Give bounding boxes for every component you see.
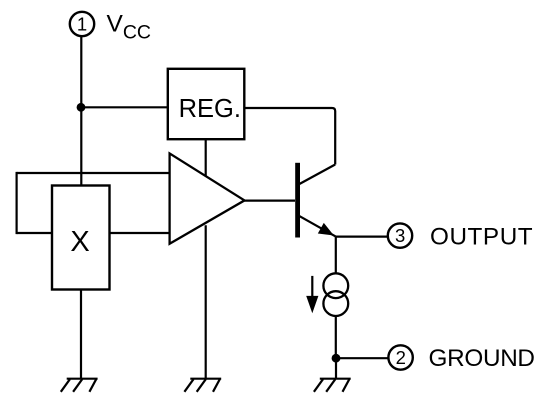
wire op-amp output to transistor base	[245, 200, 296, 202]
multiplier box X	[52, 186, 110, 290]
wire ground node stub down	[335, 358, 337, 379]
current direction arrowhead	[306, 296, 318, 313]
svg-text:2: 2	[396, 347, 406, 368]
wire emitter node down to current source	[335, 237, 337, 274]
regulator box REG.	[168, 69, 245, 139]
wire VCC vertical from pin 1 to X box top	[80, 37, 82, 186]
transistor Q1 emitter diagonal	[299, 216, 336, 237]
wire REG output to transistor collector riser	[244, 108, 335, 165]
wire X box bottom to ground	[80, 290, 82, 379]
node ground junction dot	[332, 354, 341, 363]
current source I1 bottom circle	[323, 291, 348, 316]
pin 3 circle	[388, 223, 412, 247]
wire current source to ground node	[335, 316, 337, 358]
wire op-amp top input	[17, 172, 170, 174]
wire feedback loop vertical	[16, 172, 18, 234]
svg-text:REG.: REG.	[179, 95, 241, 123]
current source I1 top circle	[323, 273, 348, 298]
node VCC junction dot	[77, 103, 86, 112]
pin 2 circle	[388, 345, 412, 369]
wire VCC junction to REG input	[81, 106, 168, 108]
wire REG bottom down behind op-amp	[205, 139, 207, 205]
op-amp U1 triangle	[170, 153, 245, 243]
svg-text:3: 3	[395, 225, 405, 246]
transistor Q1 collector diagonal	[299, 165, 336, 185]
transistor Q1 base bar	[295, 163, 300, 238]
pin 1 circle	[70, 12, 94, 36]
wire op-amp area to middle ground	[205, 225, 207, 378]
ground symbol under REG wire	[184, 379, 221, 392]
current direction arrow shaft	[311, 276, 313, 299]
svg-text:1: 1	[77, 13, 87, 34]
svg-text:OUTPUT: OUTPUT	[430, 224, 533, 251]
wire X box right to op-amp bottom input	[110, 232, 170, 234]
transistor Q1 emitter arrowhead	[318, 223, 334, 236]
wire feedback loop to X box left	[17, 232, 52, 234]
svg-text:X: X	[70, 226, 89, 258]
wire ground node to pin 2	[336, 357, 388, 359]
ground symbol under X box	[61, 379, 98, 392]
svg-text:GROUND: GROUND	[429, 345, 535, 372]
ground symbol under pin 2 node	[314, 379, 351, 392]
wire emitter node to pin 3	[336, 236, 388, 238]
